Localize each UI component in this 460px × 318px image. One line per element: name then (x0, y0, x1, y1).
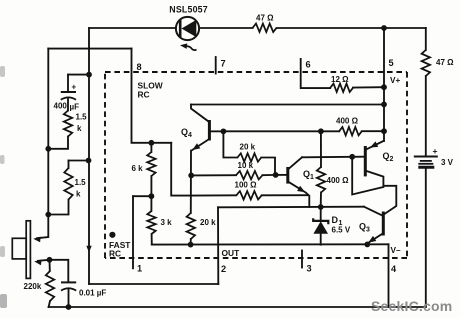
wire pin 5 V+ column (383, 28, 385, 141)
transistor Q3 (364, 186, 396, 243)
node left column junction A (45, 146, 51, 152)
svg-text:1: 1 (310, 174, 314, 181)
svg-text:47 Ω: 47 Ω (436, 58, 454, 67)
wire OUT pin2 column (217, 207, 219, 284)
node 20k bottom on V- rail (188, 242, 194, 248)
svg-text:220k: 220k (24, 282, 42, 291)
svg-text:Q: Q (383, 151, 390, 161)
wire pin8 net jog to Q4 emitter column (171, 143, 191, 196)
svg-text:10 k: 10 k (238, 161, 254, 170)
wire Q1 collector to Q2 base (302, 156, 364, 159)
svg-text:3 k: 3 k (161, 218, 173, 227)
wire battery to bottom rail (425, 169, 427, 307)
wire bottom rail (49, 306, 426, 308)
node cap 400uF top stub (86, 72, 92, 78)
wire 1.5k lower stub (69, 160, 89, 162)
svg-text:3 V: 3 V (441, 158, 454, 167)
wire 47ohm to battery (425, 76, 427, 156)
resistor 1.5k (upper) (64, 111, 72, 137)
svg-text:Q: Q (181, 127, 188, 137)
resistor 6k (150, 143, 152, 152)
node top-rail / pin5 junction (381, 25, 387, 31)
node 10k tap (188, 173, 194, 179)
svg-text:6.5 V: 6.5 V (332, 226, 351, 235)
svg-text:20 k: 20 k (200, 218, 216, 227)
node 6k top (149, 140, 155, 146)
node D1 top junction (318, 204, 324, 210)
svg-text:Q: Q (359, 222, 366, 232)
node Q3 emitter junction (364, 242, 370, 248)
wire 12ohm to V+ (353, 86, 384, 88)
wire cap stub (68, 74, 89, 76)
wire pin 3 stub (301, 251, 303, 268)
wire 6k junction to pin1 column (133, 195, 151, 197)
wire 1.5k lower to left column (48, 200, 68, 215)
node V+ 12ohm junction (381, 84, 387, 90)
svg-text:6 k: 6 k (132, 164, 144, 173)
node 6k 3k junction (149, 193, 155, 199)
svg-text:NSL5057: NSL5057 (169, 5, 208, 15)
wire OUT column (x=89) (88, 28, 90, 284)
svg-text:1.5: 1.5 (75, 178, 87, 187)
svg-text:12 Ω: 12 Ω (331, 75, 349, 84)
transistor Q1 (276, 157, 310, 207)
svg-text:3: 3 (366, 227, 370, 234)
wire top rail (OUT/LED net, y=28) (89, 27, 176, 29)
resistor 12 ohm (330, 84, 353, 92)
svg-text:µF: µF (70, 103, 80, 112)
svg-text:V–: V– (391, 246, 401, 255)
svg-text:V+: V+ (390, 76, 400, 85)
LED NSL5057 (176, 17, 199, 40)
resistor 20k (upper) (223, 131, 237, 157)
svg-text:8: 8 (137, 62, 142, 72)
wire OUT bottom rail (89, 283, 218, 285)
wire pin 1 column (132, 196, 134, 268)
node V+ rail junction (381, 102, 387, 108)
wire pin 8 column (132, 49, 172, 143)
wire pin 6 stub (301, 59, 331, 88)
node Q2 base-collector tie (349, 154, 355, 160)
node OUT column 1.5k stub (86, 158, 92, 164)
LED light-output squiggle arrow (180, 43, 197, 50)
svg-text:+: + (72, 83, 77, 92)
resistor 400 ohm (vertical) (320, 131, 322, 167)
resistor 10k (191, 174, 236, 176)
svg-text:1: 1 (137, 264, 142, 274)
svg-text:Q: Q (303, 169, 310, 179)
node Q4 base 20k junction (221, 128, 227, 134)
svg-text:k: k (76, 190, 81, 199)
svg-text:6: 6 (306, 60, 311, 70)
diode D1 zener 6.5V (313, 207, 328, 245)
resistor 400 ohm (horizontal) (321, 130, 339, 132)
capacitor C1 400uF (61, 75, 76, 111)
wire 1.5k to left column (48, 137, 68, 149)
wire right branch down from top rail (425, 28, 427, 50)
resistor 47ohm (right vertical) (422, 50, 430, 76)
FAST RC option dot (109, 232, 115, 238)
svg-text:OUT: OUT (222, 248, 241, 258)
svg-text:100 Ω: 100 Ω (235, 181, 258, 190)
wire Q4 collector rail (y=104.5) (191, 104, 384, 106)
svg-text:2: 2 (390, 156, 394, 163)
node Q1 base junction (273, 172, 279, 178)
svg-text:20 k: 20 k (240, 143, 256, 152)
transducer magnet (square) (12, 238, 26, 259)
wire transducer top contact (37, 215, 48, 239)
svg-text:1.5: 1.5 (76, 113, 88, 122)
scan smudge marks (0, 66, 7, 308)
svg-text:47 Ω: 47 Ω (256, 13, 274, 22)
resistor 220k (49, 260, 51, 271)
current direction arrowhead on OUT column (86, 246, 91, 253)
capacitor 0.01uF (50, 260, 77, 307)
svg-text:400 Ω: 400 Ω (336, 117, 359, 126)
resistor 3k (150, 196, 152, 211)
svg-text:4: 4 (391, 264, 397, 274)
wire Q4 base rail to 400ohm (223, 130, 321, 132)
svg-text:k: k (77, 124, 82, 133)
wire rail A (y=207.2) (218, 206, 364, 209)
battery BT1 3V (414, 157, 438, 168)
transistor Q2 (352, 141, 383, 195)
resistor 1.5k (lower) (68, 161, 70, 169)
svg-text:400: 400 (54, 102, 68, 111)
resistor 20k (lower) (187, 213, 195, 239)
wire slow-RC rail (y=48.6) (48, 48, 131, 50)
svg-text:4: 4 (188, 132, 192, 139)
svg-text:3: 3 (307, 264, 312, 274)
resistor 100 ohm (191, 194, 237, 196)
transducer element (bar) (26, 221, 30, 279)
wire left column (slow RC net) (47, 49, 49, 215)
node left column junction B (45, 212, 51, 218)
svg-text:400 Ω: 400 Ω (327, 176, 350, 185)
wire Q4 emitter column (190, 151, 192, 214)
wire pin 7 stub (215, 57, 217, 74)
svg-text:SeekIC.com: SeekIC.com (371, 298, 452, 314)
wire rail B (V- net) (152, 243, 389, 245)
resistor R 47ohm (top) (253, 24, 277, 32)
wire V- pin4 column (388, 244, 390, 307)
svg-text:7: 7 (221, 59, 226, 69)
node cap bottom on ground rail (66, 304, 72, 310)
svg-text:RC: RC (109, 249, 121, 259)
svg-text:0.01 µF: 0.01 µF (79, 289, 106, 298)
svg-text:D: D (332, 215, 339, 225)
wire transducer bottom contact (38, 260, 50, 261)
svg-text:RC: RC (138, 90, 150, 100)
IC dashed box outline (105, 72, 407, 258)
node 400ohm left junction (318, 128, 324, 134)
transistor Q4 (191, 105, 223, 151)
svg-text:+: + (433, 146, 438, 156)
svg-text:2: 2 (221, 264, 226, 274)
svg-text:5: 5 (389, 58, 394, 68)
node bottom contact junction (47, 257, 53, 263)
node V+ 400ohm junction (381, 128, 387, 134)
